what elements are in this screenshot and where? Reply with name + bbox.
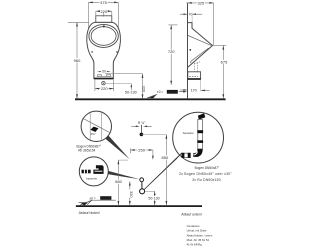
shroud centre tick (103, 13, 105, 17)
svg-text:50: 50 (102, 70, 106, 74)
inner rim line (188, 36, 211, 46)
svg-text:50-130: 50-130 (125, 91, 137, 95)
dim 675 ext line (213, 44, 227, 46)
dim 250 line (131, 149, 153, 151)
inlet stub line (140, 125, 142, 133)
circle3 foot band left (182, 153, 185, 158)
rear outlet ext line (118, 159, 128, 161)
svg-text:325: 325 (197, 0, 204, 5)
circle1 diagonal (82, 118, 110, 133)
dim 325 right ext line (213, 3, 215, 45)
dim 720 line (170, 25, 172, 85)
svg-text:220: 220 (101, 86, 108, 91)
dim 325 text (197, 1, 205, 5)
dim 50-130 bottom line (154, 191, 156, 205)
bracket slots (97, 75, 112, 77)
inlet reference line (141, 134, 166, 136)
dim 960 arrows (76, 22, 78, 98)
svg-text:220: 220 (100, 9, 107, 14)
dim 70 ext line (191, 13, 193, 22)
callout wedge from circle2 (108, 171, 140, 179)
svg-text:580: 580 (115, 179, 122, 184)
dim 250 text (138, 148, 146, 152)
dim 675 text (220, 60, 228, 64)
circle3 foot pipe (182, 153, 191, 157)
level mark flag (top section) (147, 94, 157, 98)
node2 ext line (145, 190, 155, 192)
dim 850 text (161, 155, 169, 159)
svg-text:R ¾": R ¾" (138, 121, 146, 125)
dim 70 (180, 13, 187, 15)
inner bowl line (190, 48, 208, 63)
dim 220 bottom text (100, 86, 108, 90)
dim 170 (180, 89, 186, 91)
urinal body silhouette (front) (87, 22, 121, 78)
dim 960 line (76, 22, 78, 98)
svg-text:50-130: 50-130 (148, 197, 159, 201)
detail circle 1 (81, 111, 111, 141)
dim 375 text (100, 0, 108, 4)
dim 675 line (222, 45, 224, 98)
inlet point dot (140, 133, 144, 137)
dim 220 top arrows (96, 10, 112, 12)
svg-text:960: 960 (74, 58, 81, 63)
dim 220 bottom arrows (95, 88, 114, 90)
svg-text:bauseits: bauseits (86, 176, 97, 180)
dim 375 line (89, 2, 119, 30)
svg-text:Mod.-Nr. 35 61 54: Mod.-Nr. 35 61 54 (187, 238, 210, 242)
callout wedge from circle1 (106, 136, 130, 160)
svg-text:bauseits: bauseits (183, 131, 194, 135)
side bracket dashes (189, 75, 198, 77)
finished floor step line (79, 200, 116, 204)
svg-text:R¾": R¾" (91, 132, 97, 136)
pedestal bottom edge (thick) (94, 78, 114, 80)
side fixing dot (189, 49, 191, 51)
dim 960 extension line (68, 21, 89, 23)
detail circle 3 (173, 112, 224, 163)
dim 325 line (186, 2, 213, 4)
outlet leader line (105, 83, 131, 85)
svg-text:250: 250 (138, 147, 145, 152)
dim 580 text (115, 180, 123, 184)
circle3 foot band right (188, 153, 191, 158)
side profile outline (188, 23, 213, 68)
dim 580 line (117, 160, 119, 205)
svg-text:OKFFB: OKFFB (101, 196, 110, 200)
dim 50-130 tick top (130, 84, 132, 91)
inlet shroud box (96, 16, 112, 22)
fixing hole left (91, 51, 93, 53)
bowl rim inner ellipse (91, 27, 116, 46)
hidden sump dashes (192, 61, 201, 63)
circle3 elbow corner fitting (193, 149, 203, 157)
circle3 pipe top cap (198, 113, 205, 119)
dim 850 line (165, 135, 167, 206)
node1-node2 pipe (141, 182, 143, 189)
dim 720 text (167, 50, 175, 54)
circle1 elbow fitting (black) (90, 127, 98, 132)
outlet circle (102, 82, 105, 85)
circle2 sleeve fitting (82, 170, 91, 174)
svg-text:±0 =: ±0 = (157, 90, 163, 94)
R 3/4 inlet arrows (131, 125, 138, 127)
circle3 elbow inner white arc (194, 151, 198, 155)
svg-text:41 IN 64/Rg: 41 IN 64/Rg (187, 243, 202, 247)
dim 170 ext line (200, 79, 202, 91)
svg-text:Urinal, mit Düse: Urinal, mit Düse (187, 229, 207, 233)
svg-text:Ablauf unten!: Ablauf unten! (181, 212, 202, 216)
svg-text:320: 320 (129, 191, 134, 198)
dim 720 ext tick (168, 24, 177, 26)
node 2 (bottom outlet elbow) (140, 189, 145, 194)
svg-text:Centaurus: Centaurus (187, 224, 201, 228)
svg-text:Ablauf hinten / unten: Ablauf hinten / unten (187, 233, 213, 237)
svg-text:375: 375 (100, 0, 107, 5)
node 1 (rear outlet elbow) (140, 178, 144, 182)
svg-text:850: 850 (162, 155, 169, 160)
bracket leader line to 320 dim (105, 73, 143, 75)
bracket 50 arrows (98, 71, 111, 73)
side box bottom (thick) (188, 78, 201, 80)
circle3 pipe band 1 (197, 130, 203, 133)
circle3 pipe body (198, 119, 203, 149)
dim 960 text (73, 58, 81, 62)
dim 320 top line (142, 74, 144, 99)
svg-text:Bogen DN50x87°: Bogen DN50x87° (195, 166, 220, 170)
floor line (bottom section, thick) (76, 205, 202, 207)
floor line (top section, thick) (75, 98, 226, 100)
svg-text:170: 170 (191, 88, 197, 92)
bowl rim outer ellipse (89, 24, 118, 47)
svg-text:675: 675 (221, 60, 228, 65)
dim 320 bottom line (129, 181, 131, 205)
dim 50-130 bottom text (146, 196, 162, 200)
level flag (bottom) (80, 200, 92, 205)
svg-text:320: 320 (142, 86, 147, 93)
svg-text:2x Bogen DN50x45° oder x30°: 2x Bogen DN50x45° oder x30° (179, 172, 232, 176)
callout wedge from circle3 (144, 153, 181, 189)
dim 375 arrows (89, 2, 119, 4)
svg-text:±0 =: ±0 = (89, 196, 95, 200)
circle3 pipe band 2 (197, 140, 203, 143)
dim 220 bottom line (95, 88, 114, 90)
circle1 pipe verticals (89, 113, 91, 140)
hidden outlet dashes vertical (193, 63, 195, 72)
dim 320 bottom text (rotated) (128, 189, 132, 197)
svg-text:OKFFB: OKFFB (168, 90, 177, 94)
circle2 elbow fitting (93, 165, 103, 174)
svg-text:Rb 365x154: Rb 365x154 (78, 149, 95, 153)
flush nozzle dot (103, 25, 105, 27)
fixing hole right (116, 51, 118, 53)
info block (187, 224, 213, 247)
level arrow to wall (179, 91, 186, 93)
detail circle 2 (79, 157, 108, 186)
svg-text:Ablauf hinten!: Ablauf hinten! (79, 211, 100, 215)
svg-text:2x Ro DN50x150: 2x Ro DN50x150 (192, 178, 221, 182)
dim 220 top text (100, 9, 108, 13)
dim 220 bottom ext lines (95, 80, 114, 91)
wall line (187, 3, 189, 99)
dim 250 drop line w/ arrow (152, 150, 154, 159)
dim 220 top line (96, 11, 112, 16)
side bracket box (188, 72, 201, 79)
svg-text:720: 720 (168, 49, 175, 54)
